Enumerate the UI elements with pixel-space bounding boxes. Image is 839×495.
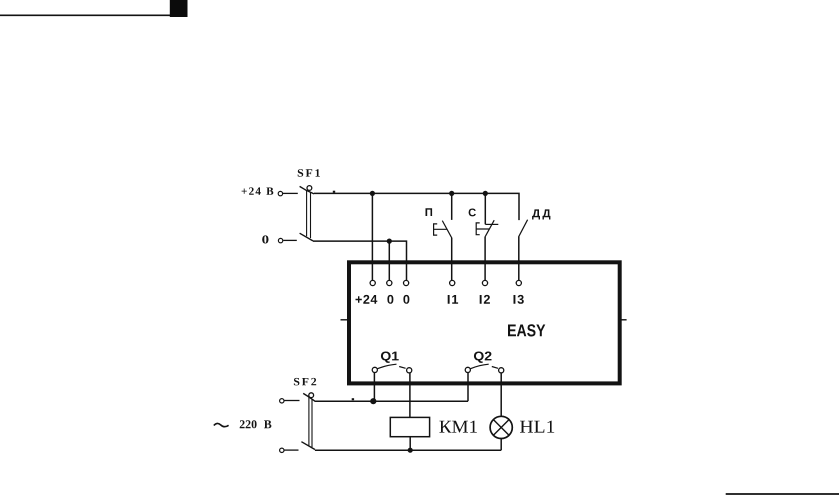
wire Q2 right to HL1	[500, 373, 502, 417]
pin label 0a	[387, 295, 393, 304]
pin I3 circle	[516, 280, 521, 285]
wire HL1 to N	[500, 439, 502, 451]
page footer rule	[726, 493, 839, 495]
page header black square	[170, 0, 188, 17]
controller EASY box	[349, 262, 620, 383]
label +24 В	[242, 187, 274, 194]
contactor coil KM1	[390, 417, 429, 436]
pin label 0b	[403, 295, 409, 304]
wire N rail	[315, 449, 501, 451]
label 220	[240, 420, 257, 428]
terminal +24В circle	[278, 191, 282, 195]
wire stub L	[284, 400, 299, 402]
node junction 0 rail	[387, 239, 392, 244]
button С actuator	[476, 223, 489, 235]
wire KM1 to N	[409, 437, 411, 451]
button С upper wire	[484, 193, 486, 224]
node junction rail/С	[483, 191, 488, 196]
terminal 0 circle	[278, 238, 282, 242]
pin label +24	[356, 295, 378, 304]
button П upper wire	[451, 193, 453, 220]
speck on 220 rail	[352, 398, 354, 400]
relay contact Q1	[372, 364, 412, 373]
switch ДД lower wire	[518, 237, 520, 281]
label 0 (SF1)	[262, 235, 268, 243]
wire stub N	[284, 449, 298, 451]
wire Q2 left drop	[467, 373, 469, 402]
terminal L circle	[280, 399, 284, 403]
label КМ1	[439, 421, 477, 433]
breaker SF2 pole1 blade	[303, 393, 314, 401]
label EASY	[508, 324, 545, 336]
node junction rail/П	[449, 191, 454, 196]
node junction +24/EASY	[370, 191, 375, 196]
label SF2	[294, 378, 316, 386]
switch ДД blade	[519, 220, 528, 237]
wire Q1 left drop	[373, 373, 375, 402]
pin 0a circle	[387, 280, 392, 285]
speck on +24 rail	[333, 191, 335, 193]
wire 0 rail	[313, 241, 407, 280]
terminal N circle	[280, 448, 284, 452]
wire stub +24В	[283, 192, 298, 194]
wire Q1 right to KM1	[409, 373, 411, 418]
breaker SF2 pole2 blade	[301, 442, 315, 450]
wire +24 drop	[371, 193, 373, 280]
pin I2 circle	[482, 280, 487, 285]
label HL1	[520, 421, 554, 433]
breaker SF1 linkage	[307, 191, 311, 238]
breaker SF2 cross ring	[309, 393, 314, 398]
button С seat bar	[485, 223, 498, 225]
wire +24 rail	[314, 193, 519, 220]
tick right edge	[621, 319, 627, 321]
label Q1	[381, 352, 399, 363]
breaker SF1 cross ring	[307, 186, 312, 191]
lamp HL1	[490, 416, 512, 438]
button С lower wire	[484, 237, 486, 280]
pin label I1	[448, 295, 458, 304]
button С blade	[485, 220, 494, 237]
pin +24 circle	[370, 280, 375, 285]
pin label I3	[514, 295, 524, 304]
label ДД	[532, 209, 550, 219]
button П blade	[442, 221, 452, 239]
pin 0b circle	[404, 280, 409, 285]
button П lower wire	[451, 238, 453, 281]
label Q2	[474, 352, 492, 363]
pin label I2	[480, 295, 490, 304]
breaker SF2 linkage	[309, 397, 312, 447]
wire 220 rail	[314, 400, 468, 402]
wire 0 drop	[388, 241, 390, 280]
label С	[469, 209, 476, 217]
page header rule	[0, 14, 170, 16]
label ~	[214, 423, 229, 426]
relay contact Q2	[465, 364, 504, 373]
tick left edge	[341, 319, 348, 321]
node junction N/KM1	[408, 448, 413, 453]
node junction 220/Q1	[370, 398, 376, 404]
wire stub 0	[283, 239, 297, 241]
pin I1 circle	[450, 280, 455, 285]
breaker SF1 pole2 blade	[300, 233, 313, 241]
label SF1	[298, 169, 320, 177]
button П actuator	[434, 224, 447, 235]
label П	[426, 208, 433, 216]
label В (220)	[264, 420, 271, 428]
breaker SF1 pole1 blade	[300, 186, 314, 194]
